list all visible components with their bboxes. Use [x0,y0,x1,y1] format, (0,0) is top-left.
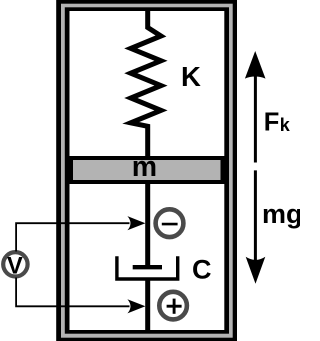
svg-text:mg: mg [262,199,300,229]
plus sign [167,305,182,308]
voltmeter V circle [3,252,27,276]
capacitor top plate [133,265,162,269]
Fk arrowhead up [245,51,266,79]
wire from bracket to frame bottom [145,279,150,330]
svg-text:V: V [7,253,23,279]
arrowhead to minus terminal [127,216,145,230]
wire V to plus terminal [16,278,129,307]
frame white interior [70,11,225,330]
arrowhead to plus terminal [127,299,145,313]
frame outer black border [56,0,237,341]
Fk arrow shaft (upper) [254,74,257,163]
spring K [131,11,161,157]
minus sign [162,223,178,226]
svg-text:F: F [264,109,280,137]
mass m bar [71,158,223,182]
rod from mass to capacitor top plate [145,182,150,267]
svg-text:C: C [192,255,212,285]
svg-text:K: K [181,61,201,92]
mg arrow shaft (lower) [254,170,257,260]
mg arrowhead down [246,257,266,284]
capacitor bottom plate bracket [117,256,178,279]
minus terminal circle [156,209,184,237]
frame gray band [61,4,233,338]
svg-text:m: m [132,151,157,183]
plus terminal circle [159,292,187,320]
frame inner black border [65,7,229,333]
wire V to minus terminal [16,223,129,251]
svg-text:k: k [280,115,291,135]
